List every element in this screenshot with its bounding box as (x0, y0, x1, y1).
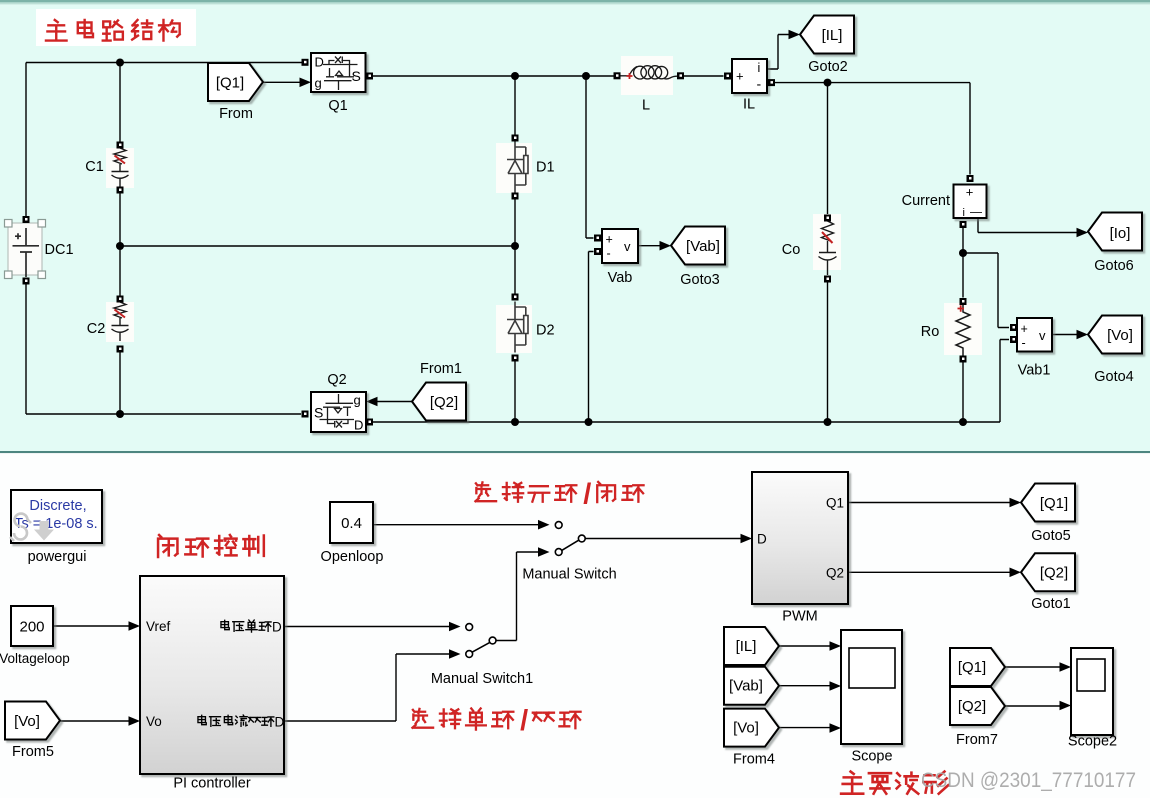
svg-text:D: D (315, 55, 324, 70)
svg-text:S: S (314, 405, 323, 421)
svg-text:[Q2]: [Q2] (1040, 565, 1068, 582)
svg-text:Goto6: Goto6 (1094, 258, 1134, 274)
svg-text:-: - (607, 247, 611, 261)
svg-text:PI controller: PI controller (173, 776, 251, 792)
svg-text:+: + (1021, 322, 1028, 336)
svg-text:Goto3: Goto3 (680, 272, 720, 288)
svg-text:D: D (757, 532, 767, 547)
svg-text:Manual Switch: Manual Switch (522, 567, 616, 583)
svg-text:-: - (1022, 336, 1026, 350)
svg-text:i: i (963, 207, 965, 219)
svg-text:i: i (758, 61, 761, 75)
svg-text:+: + (966, 185, 974, 200)
svg-text:L: L (642, 98, 650, 114)
svg-text:Scope: Scope (851, 749, 892, 765)
svg-text:Goto1: Goto1 (1031, 596, 1071, 612)
svg-text:Scope2: Scope2 (1068, 734, 1117, 750)
svg-text:Discrete,: Discrete, (29, 498, 86, 514)
svg-text:Co: Co (782, 242, 801, 258)
svg-text:+: + (606, 233, 613, 247)
svg-text:Current: Current (902, 193, 950, 209)
svg-text:Q2: Q2 (327, 372, 346, 388)
svg-text:v: v (1039, 328, 1046, 343)
svg-text:Vab: Vab (608, 270, 633, 286)
svg-text:[Vab]: [Vab] (686, 238, 720, 255)
svg-text:[Vo]: [Vo] (1107, 327, 1133, 344)
svg-text:Goto4: Goto4 (1094, 369, 1134, 385)
svg-text:IL: IL (743, 97, 755, 113)
svg-text:Q2: Q2 (826, 566, 844, 581)
svg-text:Q1: Q1 (328, 98, 347, 114)
svg-text:Ro: Ro (921, 324, 940, 340)
svg-text:Vab1: Vab1 (1018, 363, 1051, 379)
svg-text:CSDN @2301_77710177: CSDN @2301_77710177 (921, 768, 1136, 792)
svg-text:-: - (757, 76, 762, 92)
svg-text:PWM: PWM (782, 609, 817, 625)
svg-text:Q1: Q1 (826, 496, 844, 511)
svg-text:[IL]: [IL] (822, 27, 843, 44)
svg-text:From1: From1 (420, 361, 462, 377)
svg-text:powergui: powergui (28, 549, 87, 565)
svg-text:D: D (275, 715, 285, 730)
svg-text:S: S (352, 68, 361, 84)
svg-text:Goto5: Goto5 (1031, 528, 1071, 544)
svg-text:[Q1]: [Q1] (216, 75, 244, 92)
svg-text:DC1: DC1 (45, 242, 74, 258)
svg-text:—: — (970, 205, 982, 219)
svg-text:Openloop: Openloop (321, 549, 384, 565)
svg-text:Goto2: Goto2 (808, 59, 848, 75)
svg-text:D: D (272, 620, 282, 635)
svg-text:From7: From7 (956, 732, 998, 748)
svg-text:g: g (315, 76, 322, 91)
svg-text:D2: D2 (536, 323, 555, 339)
svg-text:[IL]: [IL] (736, 638, 757, 655)
svg-text:C2: C2 (87, 321, 106, 337)
svg-text:Vo: Vo (146, 714, 162, 729)
svg-text:From: From (219, 106, 253, 122)
svg-text:0.4: 0.4 (341, 515, 362, 532)
svg-text:[Q2]: [Q2] (430, 394, 458, 411)
svg-text:Vref: Vref (146, 619, 171, 634)
svg-text:v: v (624, 239, 631, 254)
svg-text:D: D (354, 418, 363, 433)
svg-text:[Vab]: [Vab] (729, 678, 763, 695)
svg-text:From5: From5 (12, 744, 54, 760)
svg-text:g: g (354, 393, 361, 408)
svg-text:Voltageloop: Voltageloop (0, 651, 70, 666)
svg-text:C1: C1 (85, 159, 104, 175)
svg-text:Manual Switch1: Manual Switch1 (431, 671, 533, 687)
svg-text:[Q1]: [Q1] (1040, 495, 1068, 512)
svg-text:/: / (520, 705, 528, 737)
svg-text:D1: D1 (536, 160, 555, 176)
svg-text:[Q2]: [Q2] (958, 698, 986, 715)
svg-text:+: + (736, 69, 744, 84)
svg-text:From4: From4 (733, 752, 775, 768)
svg-text:[Vo]: [Vo] (14, 713, 40, 730)
svg-text:200: 200 (19, 619, 44, 636)
svg-text:[Io]: [Io] (1110, 225, 1131, 242)
svg-text:[Vo]: [Vo] (733, 720, 759, 737)
svg-text:/: / (583, 479, 591, 511)
svg-text:[Q1]: [Q1] (958, 659, 986, 676)
